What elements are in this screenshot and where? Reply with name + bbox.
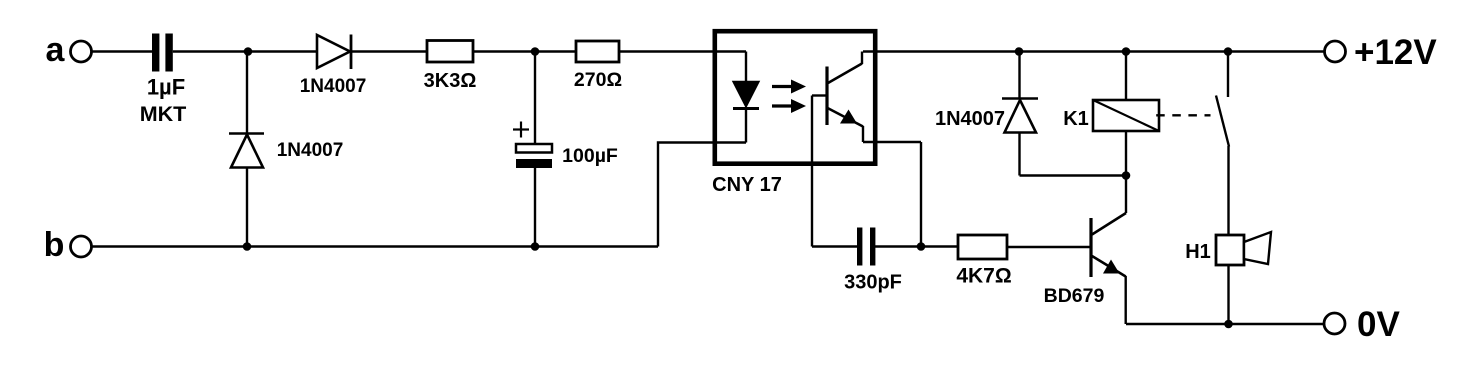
transistor Q1 BD679 (1044, 213, 1126, 324)
wire C1 to node A (173, 50, 247, 52)
wire D3 to node G (1020, 174, 1127, 176)
resistor R2 270 (574, 41, 622, 91)
capacitor C1 1uF MKT (140, 34, 187, 127)
buzzer H1 (1185, 232, 1271, 324)
wire b line up to opto LED cathode (658, 143, 746, 247)
node I junction dot (1224, 47, 1233, 56)
node A junction dot (244, 47, 253, 56)
diode D3 1N4007 flyback (935, 52, 1038, 176)
svg-text:3K3Ω: 3K3Ω (424, 70, 477, 92)
wire R2 to opto LED (619, 50, 746, 52)
light arrow 2 (772, 99, 806, 113)
phototransistor inside U1 (827, 52, 863, 143)
optocoupler U1 CNY 17 box (712, 31, 875, 196)
svg-text:+12V: +12V (1354, 33, 1437, 72)
svg-text:K1: K1 (1063, 108, 1089, 130)
svg-text:1N4007: 1N4007 (277, 140, 344, 161)
wire top rail to +12V (863, 50, 1325, 52)
diode D2 1N4007 vertical (229, 52, 343, 247)
node G junction dot (1122, 171, 1131, 180)
wire b line (92, 245, 659, 247)
svg-text:100µF: 100µF (562, 145, 618, 167)
svg-text:1N4007: 1N4007 (935, 108, 1005, 130)
wire D1 to R1 (351, 50, 427, 52)
svg-text:1N4007: 1N4007 (300, 76, 367, 97)
svg-text:0V: 0V (1357, 305, 1400, 344)
svg-text:1µF: 1µF (147, 75, 185, 100)
wire U1 base lead down (812, 96, 857, 247)
switch S1 (1216, 52, 1229, 236)
diode D1 1N4007 horizontal (300, 35, 367, 98)
LED inside U1 (733, 52, 759, 143)
node H junction dot (1122, 47, 1131, 56)
wire a to C1 (92, 50, 153, 52)
wire C3 to R3 (875, 245, 958, 247)
wire node B to R2 (535, 50, 576, 52)
svg-text:a: a (46, 31, 66, 69)
svg-text:MKT: MKT (140, 102, 187, 126)
wire R3 to Q1 base (1007, 246, 1091, 248)
wire U1 emitter to node E (863, 142, 921, 247)
wire 0V rail (1126, 323, 1324, 325)
dashed link relay to switch (1156, 114, 1210, 116)
terminal a (46, 31, 92, 69)
svg-text:H1: H1 (1185, 241, 1211, 263)
node B junction dot (531, 47, 540, 56)
light arrow 1 (772, 80, 806, 94)
terminal +12V (1325, 33, 1438, 72)
terminal 0V (1324, 305, 1400, 344)
svg-text:330pF: 330pF (844, 272, 902, 294)
svg-text:270Ω: 270Ω (574, 69, 622, 91)
capacitor C2 100uF (513, 52, 618, 247)
svg-text:b: b (44, 226, 65, 264)
resistor R1 3K3 (424, 41, 477, 93)
wire node A to D1 (248, 50, 317, 52)
svg-text:4K7Ω: 4K7Ω (956, 265, 1011, 288)
node J junction dot (1224, 320, 1233, 329)
capacitor C3 330pF (844, 228, 902, 294)
svg-text:CNY 17: CNY 17 (712, 174, 782, 196)
terminal b (44, 226, 92, 264)
relay K1 (1063, 52, 1159, 214)
node C junction dot on b line (243, 242, 252, 251)
svg-text:BD679: BD679 (1044, 285, 1105, 307)
wire R1 to node B (473, 50, 535, 52)
node F junction dot (1015, 47, 1024, 56)
resistor R3 4K7 (956, 235, 1011, 288)
node E junction dot (917, 242, 926, 251)
node D junction dot on b line (531, 242, 540, 251)
